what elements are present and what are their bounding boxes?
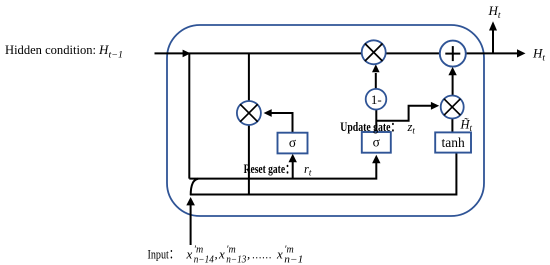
arrowhead into cell on main line: [183, 50, 191, 58]
arrowhead into right multiply: [431, 102, 439, 110]
reset sigma box: [278, 133, 308, 154]
svg-text:σ: σ: [373, 135, 381, 150]
svg-text:Reset gate：: Reset gate：: [244, 162, 295, 176]
svg-text:,: ,: [247, 247, 250, 262]
svg-text:Ht: Ht: [488, 3, 501, 21]
svg-text:H̃t: H̃t: [460, 117, 473, 133]
multiplier circle top (x): [362, 40, 386, 64]
wire: vertical drop of h_{t-1} at left: [188, 53, 190, 178]
svg-text:x: x: [276, 247, 283, 262]
svg-text:n−13: n−13: [226, 255, 246, 265]
arrowhead into update sigma: [372, 155, 380, 163]
wire: curved input branch to line A: [191, 179, 199, 195]
svg-text:Hidden condition:: Hidden condition:: [5, 42, 96, 57]
svg-text:tanh: tanh: [441, 135, 464, 150]
wire: main hidden-state line H_{t-1} -> H_t: [155, 52, 519, 54]
GRU cell rounded box: [167, 25, 484, 216]
svg-text:n−14: n−14: [194, 255, 214, 265]
svg-text:……: ……: [252, 247, 272, 262]
svg-text:t−1: t−1: [109, 51, 124, 61]
multiplier circle left (x): [237, 101, 261, 125]
svg-text:H: H: [98, 42, 109, 57]
wire: tanh top to right multiply: [451, 119, 453, 133]
multiplier circle right (x): [441, 96, 464, 119]
svg-text:,: ,: [215, 247, 218, 262]
wire: update sigma output up to 1- circle: [375, 110, 377, 133]
arrowhead into left multiply: [264, 109, 272, 117]
wire: H_t upward output: [492, 31, 494, 54]
wire: input vertical with arrowhead: [190, 205, 192, 246]
wire: 1- circle up to top multiply, arrowhead: [375, 73, 377, 89]
arrowhead into reset sigma: [289, 154, 297, 162]
wire: vertical through reset multiply: [248, 53, 250, 194]
wire: right multiply up to plus circle, arrowhead: [452, 75, 454, 96]
svg-text:zt: zt: [407, 120, 416, 136]
wire: z_t branch to right multiply: [376, 106, 431, 121]
svg-text:x: x: [218, 247, 225, 262]
wire: line A (feeds sigma gates): [189, 163, 376, 179]
tanh box: [435, 132, 471, 152]
svg-text:Ht: Ht: [532, 46, 545, 64]
wire: branch up to reset sigma: [292, 162, 294, 179]
svg-text:1-: 1-: [371, 92, 382, 107]
svg-text:σ: σ: [289, 135, 297, 150]
wire: reset sigma output to left multiply: [271, 113, 293, 133]
svg-text:x: x: [186, 247, 193, 262]
svg-text:n−1: n−1: [284, 255, 303, 265]
svg-text:Input：: Input：: [148, 247, 180, 262]
1- circle: [366, 89, 387, 110]
adder circle (+): [440, 41, 466, 67]
svg-text:Update gate：: Update gate：: [340, 120, 400, 134]
wire: line B (feeds tanh): [190, 153, 456, 195]
update sigma box: [362, 132, 391, 153]
arrowhead output H_t right: [517, 49, 526, 57]
svg-text:rt: rt: [304, 162, 312, 178]
